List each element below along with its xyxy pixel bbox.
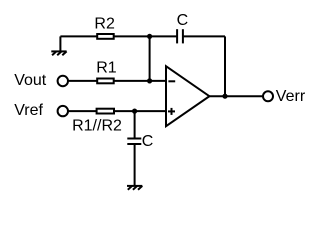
- capacitor C (to ground): [127, 139, 141, 145]
- op-amp plus pin: [168, 108, 175, 115]
- terminal Vout: [58, 76, 68, 86]
- wire capacitor to right corner: [183, 35, 225, 37]
- svg-text:R1//R2: R1//R2: [72, 118, 122, 135]
- terminal Vref: [58, 106, 68, 116]
- node B junction: [147, 78, 152, 83]
- capacitor C (feedback): [177, 29, 183, 43]
- wire capacitor to ground: [134, 144, 136, 186]
- svg-text:C: C: [142, 133, 154, 150]
- svg-text:R2: R2: [94, 16, 115, 33]
- wire op-amp output to Verr: [209, 95, 262, 97]
- wire node C down to capacitor C: [134, 111, 136, 138]
- svg-text:Vout: Vout: [14, 72, 47, 89]
- wire R2 to node A and capacitor C: [114, 35, 177, 37]
- node C junction: [132, 109, 137, 114]
- op-amp U1: [166, 66, 209, 126]
- output node junction: [222, 94, 227, 99]
- wire R1//R2 to op-amp non-inverting input: [114, 110, 166, 112]
- wire node A down to node B: [149, 36, 151, 81]
- resistor R1: [97, 79, 114, 84]
- op-amp minus pin: [168, 80, 175, 82]
- terminal Verr: [263, 91, 273, 101]
- resistor R2: [97, 34, 114, 39]
- ground (bottom): [127, 186, 142, 190]
- wire down to output node: [224, 36, 226, 96]
- wire Vref to R1//R2: [68, 110, 97, 112]
- wire ground to R2: [60, 35, 97, 37]
- svg-text:Verr: Verr: [276, 88, 306, 105]
- node A junction: [147, 34, 152, 39]
- svg-text:C: C: [177, 12, 189, 29]
- ground (top-left): [51, 36, 66, 55]
- svg-text:Vref: Vref: [14, 102, 43, 119]
- resistor R1//R2: [97, 109, 114, 114]
- wire R1 to op-amp inverting input: [114, 80, 166, 82]
- svg-text:R1: R1: [96, 60, 117, 77]
- wire Vout to R1: [68, 80, 97, 82]
